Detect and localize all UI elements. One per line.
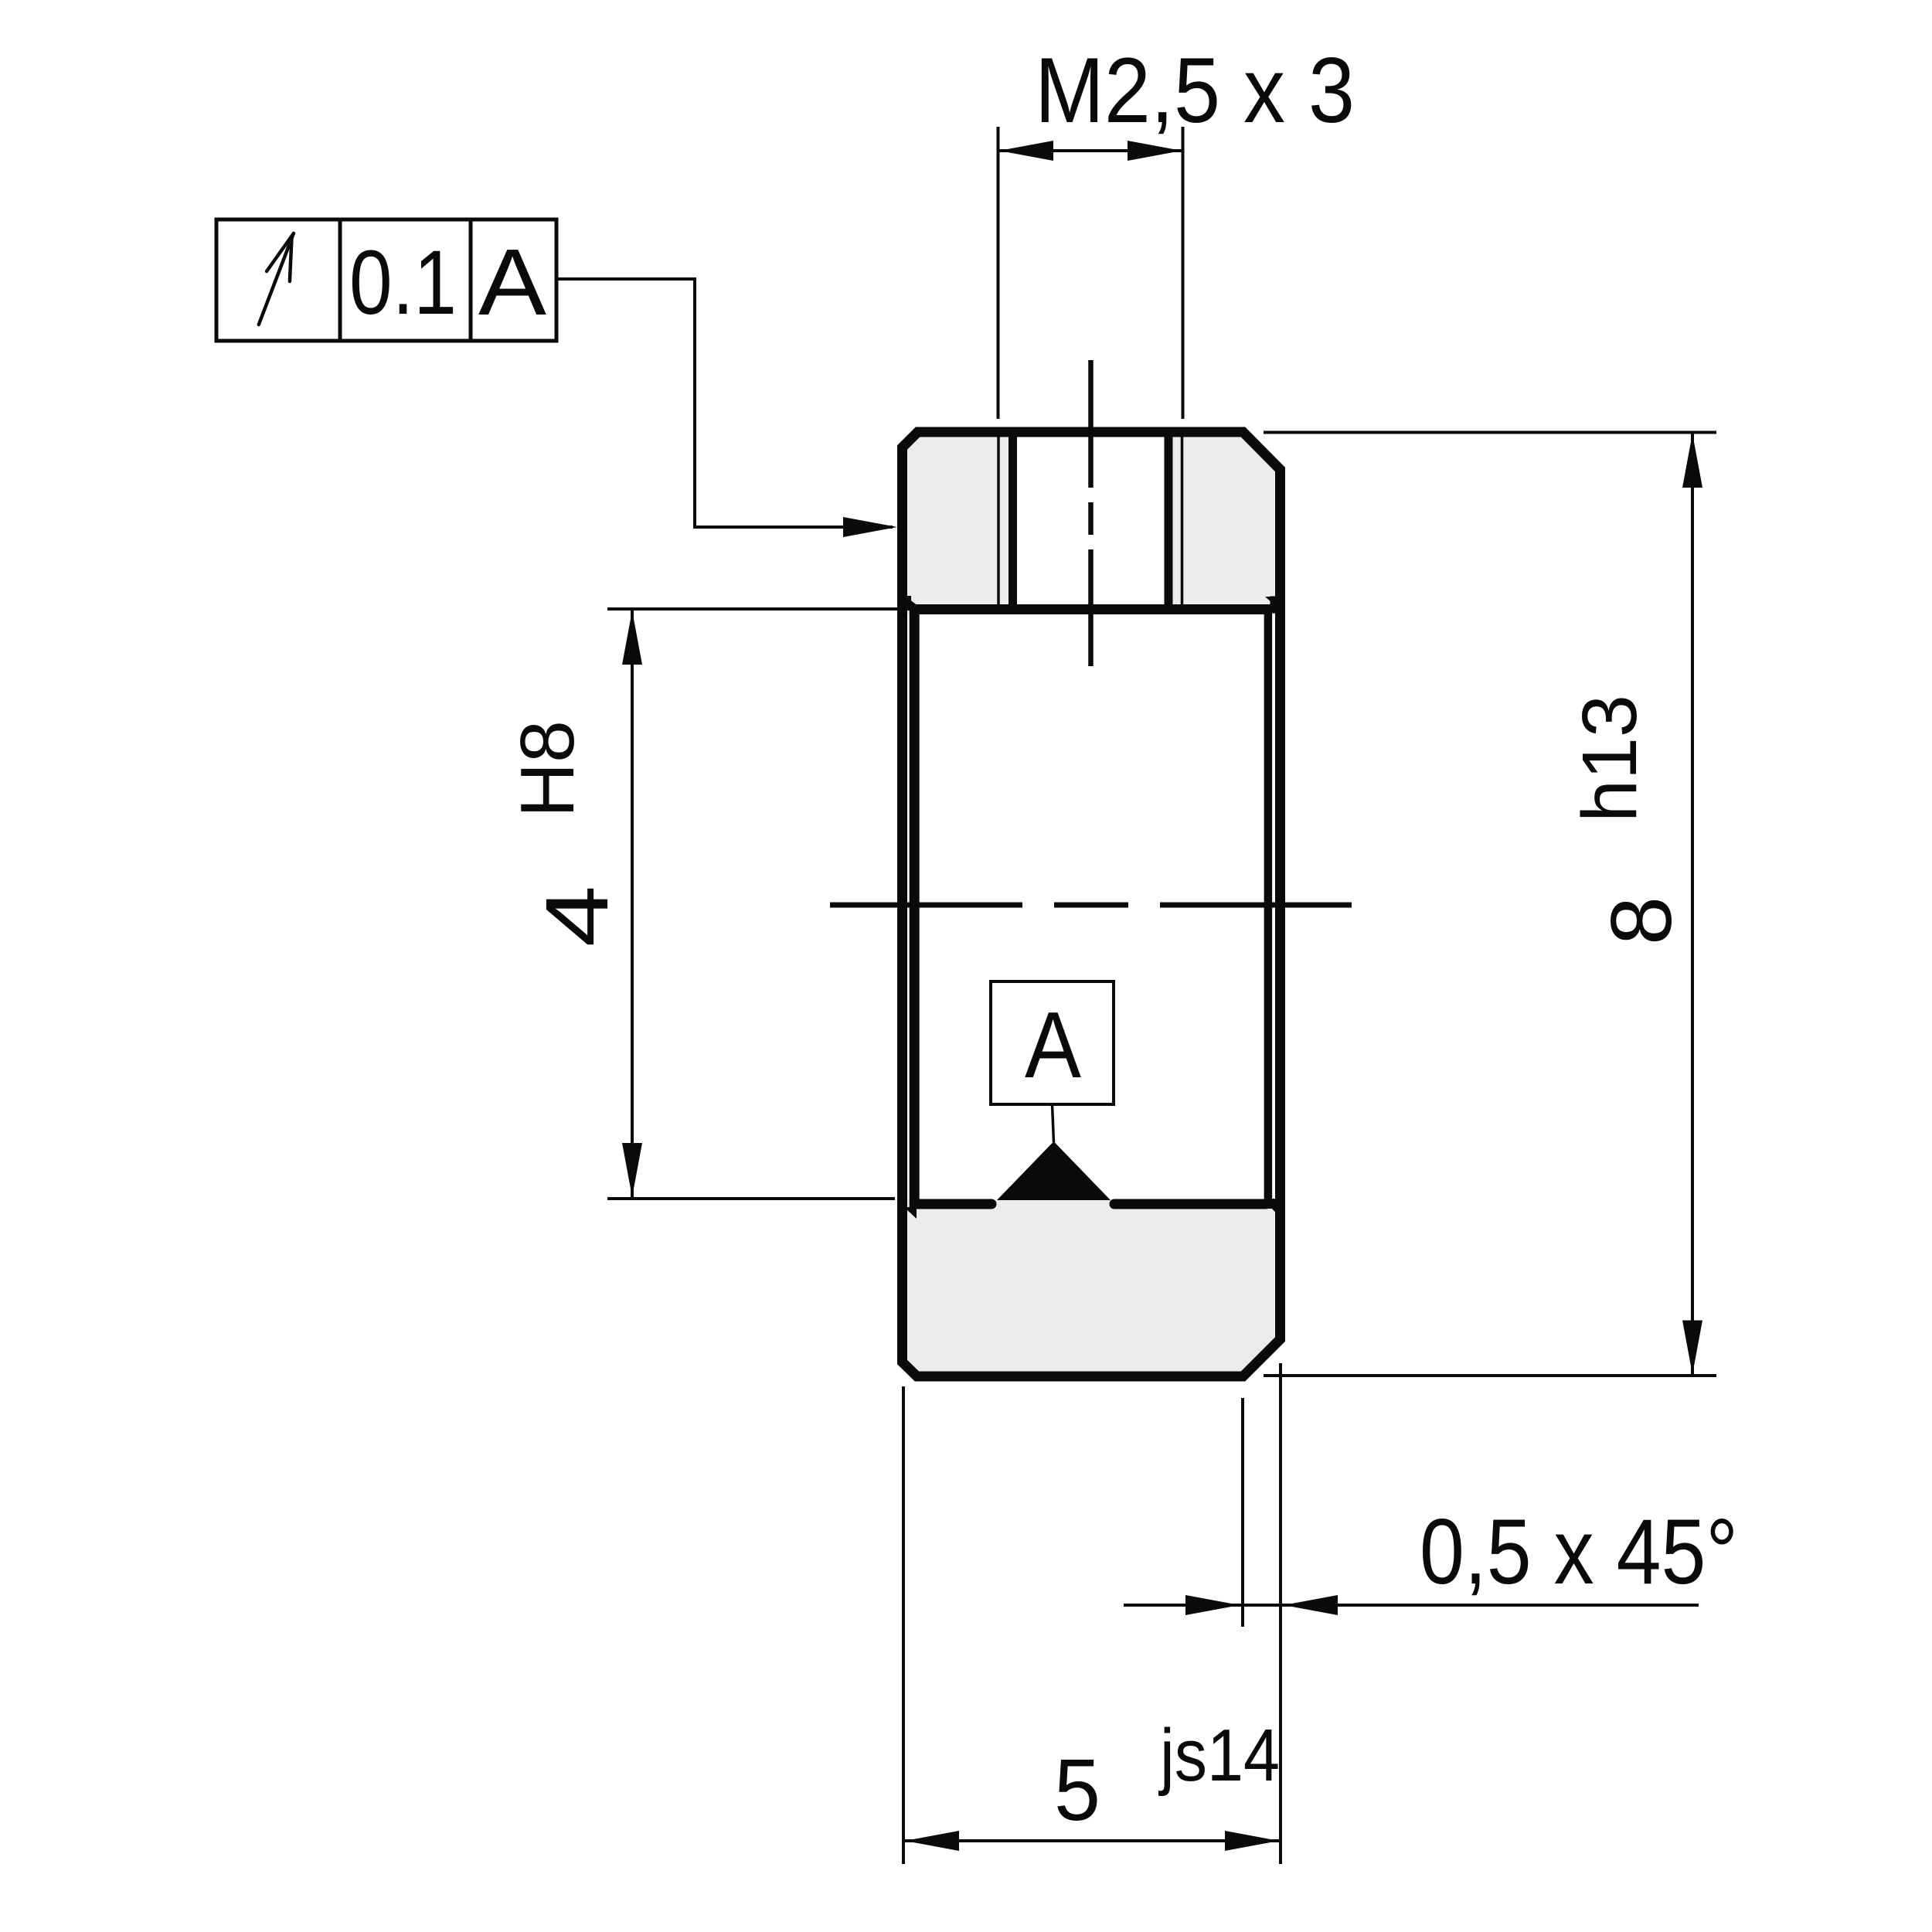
dimension 5 js14 left extension line xyxy=(902,1386,905,1864)
arrowhead down xyxy=(1682,1321,1702,1375)
arrowhead left xyxy=(905,1831,959,1851)
counterbore bottom chamfer left xyxy=(906,1209,917,1219)
dimension M2,5 x 3 extension line left xyxy=(997,127,1000,419)
chamfer arrowhead left xyxy=(1185,1595,1240,1615)
dimension 4 H8 dimension line xyxy=(631,609,634,1199)
svg-text:0,5 x 45°: 0,5 x 45° xyxy=(1420,1500,1738,1604)
svg-text:4: 4 xyxy=(528,886,627,947)
leader from tolerance frame to part xyxy=(559,279,893,527)
arrowhead down xyxy=(622,1143,642,1197)
part body top section fill xyxy=(903,432,1281,614)
arrowhead right xyxy=(1225,1831,1279,1851)
svg-text:js14: js14 xyxy=(1158,1714,1280,1797)
counterbore floor line right segment xyxy=(1114,1199,1266,1209)
horizontal center line of bore xyxy=(830,903,1352,908)
svg-text:h13: h13 xyxy=(1566,695,1653,822)
svg-text:0.1: 0.1 xyxy=(349,232,457,334)
counterbore floor line left segment xyxy=(917,1199,992,1209)
arrowhead right xyxy=(1128,141,1182,161)
tapped hole wall left xyxy=(1009,427,1017,615)
dimension 8 h13 dimension line xyxy=(1691,433,1694,1376)
datum A frame xyxy=(991,981,1114,1104)
part outline xyxy=(903,432,1281,1376)
svg-text:H8: H8 xyxy=(505,720,590,818)
chamfer dimension extension line right xyxy=(1279,1363,1282,1864)
dimension 8 h13 top extension line xyxy=(1264,431,1716,434)
arrowhead up xyxy=(1682,434,1702,488)
svg-text:M2,5 x 3: M2,5 x 3 xyxy=(1035,39,1355,142)
thread major diameter line right xyxy=(1181,434,1184,605)
arrowhead left xyxy=(999,141,1053,161)
dimension 4 H8 bottom extension line xyxy=(607,1197,895,1200)
counterbore wall left xyxy=(910,604,920,1209)
dimension 8 h13 bottom extension line xyxy=(1264,1374,1716,1377)
dimension 5 js14 dimension line xyxy=(903,1839,1281,1842)
runout symbol arrow xyxy=(259,233,294,325)
svg-text:5: 5 xyxy=(1054,1741,1100,1838)
datum triangle xyxy=(997,1141,1111,1200)
vertical center line of thread xyxy=(1088,360,1094,666)
chamfer dimension line xyxy=(1124,1604,1699,1607)
thread hole bottom face line xyxy=(912,604,1270,614)
chamfer dimension extension line left xyxy=(1241,1398,1244,1627)
counterbore top chamfer right xyxy=(1265,597,1277,607)
dimension M2,5 x 3 dimension line xyxy=(998,149,1182,152)
leader arrowhead xyxy=(843,517,897,537)
thread major diameter line left xyxy=(997,434,1000,605)
counterbore wall right xyxy=(1264,604,1273,1209)
part body bottom section fill xyxy=(903,1199,1281,1376)
arrowhead up xyxy=(622,611,642,665)
svg-text:A: A xyxy=(1025,992,1082,1097)
dimension 4 H8 top extension line xyxy=(607,607,920,611)
svg-text:A: A xyxy=(478,230,547,335)
datum leader xyxy=(1053,1104,1054,1142)
dimension M2,5 x 3 extension line right xyxy=(1182,127,1185,419)
tapped hole wall right xyxy=(1165,427,1173,615)
counterbore bottom chamfer right xyxy=(1267,1203,1277,1214)
runout tolerance frame xyxy=(216,219,556,341)
svg-text:8: 8 xyxy=(1594,896,1689,945)
chamfer arrowhead right xyxy=(1284,1595,1338,1615)
counterbore top chamfer left xyxy=(906,597,918,606)
tapped hole bore (white) xyxy=(1013,427,1169,610)
